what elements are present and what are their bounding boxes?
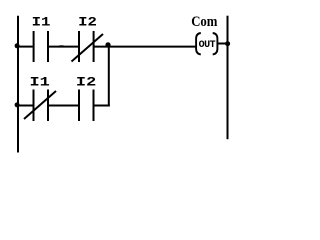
svg-text:I1: I1 (32, 16, 51, 31)
left power rail (17, 16, 19, 153)
output coil U1: right parenthesis (213, 33, 218, 54)
contact I2 rung2 (normally open) (79, 90, 94, 122)
wire rung2: contact I1 to contact I2 (49, 105, 78, 107)
contact I1 rung2 (normally closed) (24, 90, 56, 122)
wire: branch vertical up to rung1 junction (108, 45, 110, 107)
svg-text:I2: I2 (78, 16, 97, 31)
svg-text:I2: I2 (76, 74, 96, 90)
node: junction dot left rail rung1 (15, 43, 20, 48)
wire: coil to right rail (218, 43, 227, 45)
contact I1 rung1 (normally open) (34, 31, 48, 62)
svg-text:I1: I1 (30, 74, 50, 90)
node: junction dot after I2 rung1 (105, 42, 110, 47)
wire rung2: contact I2 to branch corner (94, 105, 110, 107)
svg-text:Com: Com (191, 13, 218, 29)
node: junction dot coil to right rail (225, 41, 230, 46)
right power rail (227, 16, 229, 140)
wire overlap blip on rung1 (59, 45, 63, 47)
contact I2 rung1 (normally closed) (72, 31, 104, 62)
svg-text:OUT: OUT (199, 40, 216, 51)
wire rung2: rail to contact I1 (17, 105, 33, 107)
node: junction dot left rail rung2 (15, 102, 20, 107)
wire rung1: contact I2 to coil (94, 46, 195, 48)
wire rung1: contact I1 to contact I2 (49, 46, 78, 48)
wire rung1: rail to contact I1 (17, 46, 33, 48)
output coil U1: left parenthesis (196, 33, 201, 54)
